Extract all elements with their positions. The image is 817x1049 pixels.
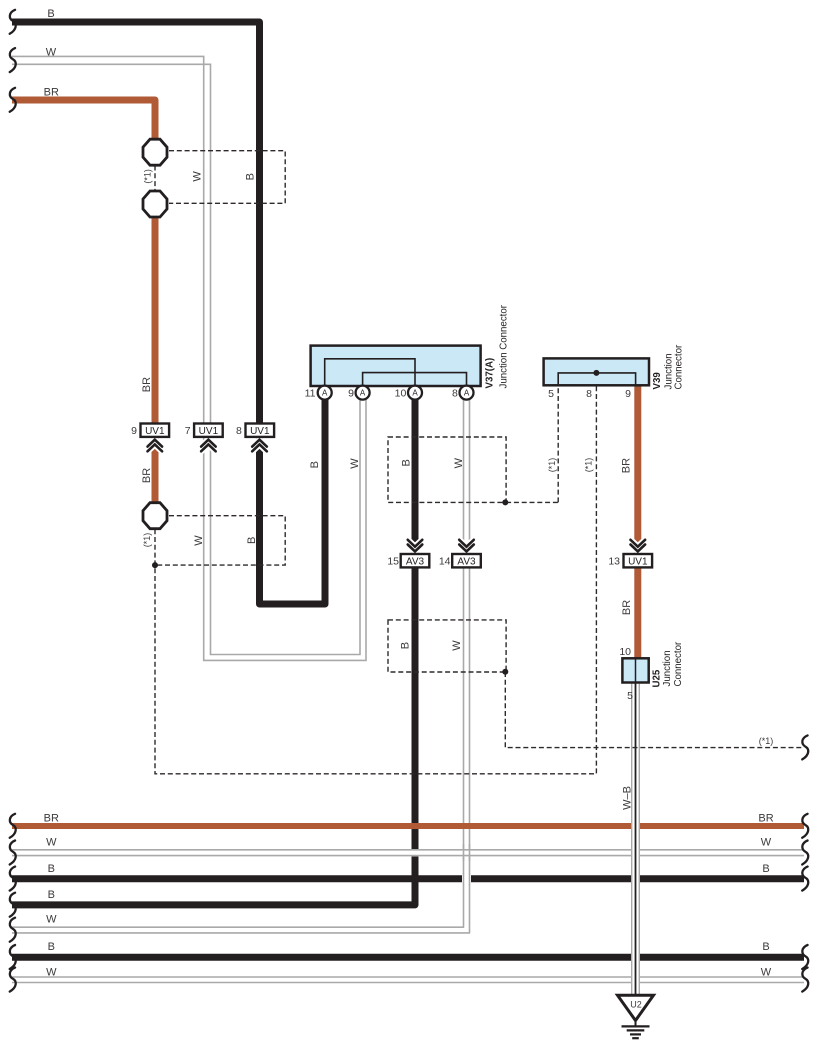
octagon connector 3 on BR wire [143, 503, 167, 529]
dashed link between octagon 1 and octagon 2, net (*1) [154, 166, 156, 191]
svg-text:W: W [46, 47, 57, 59]
svg-text:14: 14 [439, 555, 451, 567]
svg-text:10: 10 [395, 387, 407, 399]
wire W-B from U25 pin 5 down to ground U2 [632, 682, 640, 995]
svg-text:W: W [761, 836, 772, 848]
wire break squiggles, left edge [10, 10, 16, 992]
svg-text:B: B [246, 537, 258, 544]
svg-text:UV1: UV1 [628, 556, 648, 567]
svg-text:UV1: UV1 [199, 426, 219, 437]
svg-text:(*1): (*1) [759, 736, 774, 746]
ground symbol U2 [618, 995, 654, 1038]
svg-text:Junction: Junction [662, 650, 673, 686]
svg-text:AV3: AV3 [406, 556, 425, 567]
svg-text:9: 9 [131, 425, 137, 437]
svg-text:BR: BR [44, 86, 59, 98]
svg-text:V37(A): V37(A) [485, 358, 496, 389]
dashed shield box around pin10/pin8 wires (lower) [388, 620, 506, 672]
svg-text:BR: BR [621, 600, 633, 615]
junction connector U25 body [622, 658, 648, 682]
svg-text:(*1): (*1) [142, 169, 152, 184]
svg-text:B: B [48, 941, 55, 953]
svg-text:B: B [244, 173, 256, 180]
svg-text:A: A [322, 389, 328, 398]
svg-text:B: B [309, 461, 321, 468]
wire BR from V39 pin 9 down to U25 pin 10 [634, 385, 641, 660]
wire BR top: from left edge down to octagon chain [12, 100, 155, 504]
svg-text:W: W [349, 458, 361, 469]
wire B top: from left edge down and U-turn up to V37 pin 11 [12, 22, 325, 604]
svg-text:BR: BR [141, 377, 153, 392]
octagon connector 2 on BR wire [143, 191, 167, 217]
dashed link from upper shield box to V39 pin 5 [506, 385, 558, 502]
dashed shield line from octagon 3 down then right to V39 pin 8 [155, 385, 596, 774]
svg-text:AV3: AV3 [457, 556, 476, 567]
octagon connector 1 on BR wire [143, 139, 167, 165]
junction dot on shield at (155,565) [152, 562, 158, 568]
svg-text:(*1): (*1) [142, 533, 152, 548]
dashed shield box around V37 pin10/pin8 wires (upper) [388, 437, 506, 502]
connector 13 UV1 (in-line, on BR wire) [608, 540, 652, 568]
svg-text:W: W [46, 914, 57, 926]
svg-text:9: 9 [348, 387, 354, 399]
dashed link from lower shield box to right edge, net (*1) [505, 672, 803, 748]
svg-text:11: 11 [305, 387, 316, 399]
wire W top white band [12, 56, 366, 660]
svg-text:A: A [464, 389, 470, 398]
svg-text:U2: U2 [630, 1000, 642, 1010]
svg-text:8: 8 [586, 388, 592, 400]
wire break squiggles, right edge [802, 735, 808, 991]
svg-text:Junction Connector: Junction Connector [499, 304, 510, 388]
bus wire B horizontal 3 [12, 954, 804, 961]
svg-text:W: W [193, 535, 205, 546]
svg-text:B: B [399, 642, 411, 649]
svg-text:5: 5 [548, 388, 554, 400]
svg-text:A: A [360, 389, 366, 398]
svg-text:7: 7 [185, 425, 191, 437]
svg-text:W: W [453, 457, 465, 468]
svg-text:Connector: Connector [673, 641, 684, 686]
svg-text:BR: BR [758, 813, 773, 825]
bus wire W horizontal 3 [12, 977, 804, 983]
svg-text:13: 13 [608, 555, 620, 567]
junction connector V39 body [544, 358, 649, 385]
junction dot on lower shield box corner [502, 669, 508, 675]
svg-text:W: W [192, 171, 204, 182]
svg-text:W: W [46, 967, 57, 979]
V37 pin 10 terminal A [408, 386, 422, 400]
wire B from V37 pin 10 down to bottom-left bus [12, 396, 415, 905]
bus wire W horizontal 1 [12, 850, 804, 856]
svg-text:B: B [401, 459, 413, 466]
svg-text:5: 5 [627, 690, 633, 702]
svg-text:BR: BR [141, 468, 153, 483]
bus wire BR horizontal [12, 823, 804, 829]
svg-text:BR: BR [620, 458, 632, 473]
svg-text:B: B [48, 889, 55, 901]
connector 14 AV3 (in-line, on W wire) [439, 540, 481, 568]
connector 8 UV1 (in-line, on B wire) [236, 424, 274, 452]
V37 pin 8 terminal A [460, 386, 474, 400]
svg-text:15: 15 [387, 555, 399, 567]
svg-text:Connector: Connector [674, 344, 685, 389]
V37 pin 11 terminal A [318, 386, 332, 400]
svg-text:UV1: UV1 [145, 426, 165, 437]
wire W vertical over bus crossing [464, 844, 470, 861]
dashed shield box around octagons 1-2 [169, 151, 285, 204]
connector 15 AV3 (in-line, on B wire) [387, 540, 429, 568]
svg-text:UV1: UV1 [250, 426, 270, 437]
connector 9 UV1 (in-line, on BR wire) [131, 424, 169, 452]
svg-text:U25: U25 [651, 669, 662, 687]
svg-text:W: W [761, 967, 772, 979]
svg-text:W–B: W–B [622, 786, 634, 810]
svg-text:8: 8 [236, 425, 242, 437]
svg-text:W: W [46, 836, 57, 848]
svg-text:B: B [762, 863, 769, 875]
svg-text:B: B [762, 941, 769, 953]
svg-text:V39: V39 [652, 372, 663, 390]
svg-text:B: B [47, 8, 54, 20]
svg-text:BR: BR [44, 813, 59, 825]
dashed shield box at octagon 3 [155, 516, 285, 565]
svg-text:B: B [48, 863, 55, 875]
connector 7 UV1 (in-line, on W wire) [185, 424, 223, 452]
svg-text:8: 8 [452, 387, 458, 399]
svg-text:A: A [412, 389, 418, 398]
svg-text:9: 9 [625, 388, 631, 400]
svg-text:(*1): (*1) [547, 458, 557, 473]
wire W vertical crossing over B bus [464, 873, 470, 885]
bus wire B horizontal 1 [12, 875, 804, 882]
wire W from V37 pin 8 down to bottom-left bus [12, 396, 470, 933]
svg-text:(*1): (*1) [583, 458, 593, 473]
svg-text:10: 10 [619, 646, 631, 658]
svg-text:W: W [451, 640, 463, 651]
junction dot on upper shield box corner [502, 499, 508, 505]
junction connector V37(A) body [311, 346, 481, 386]
V37 pin 9 terminal A [356, 386, 370, 400]
